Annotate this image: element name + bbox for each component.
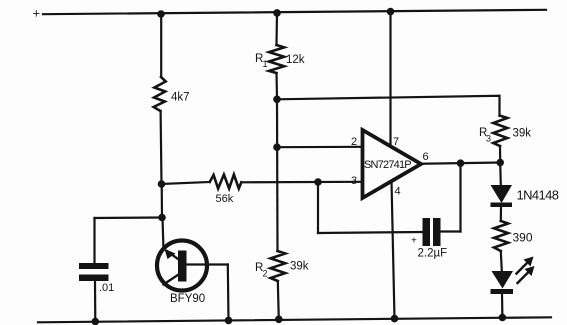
wire 56k left lead [162, 182, 210, 184]
wire 56k to pin3 [241, 181, 361, 184]
node junction output wire / feedback [457, 159, 465, 167]
node junction bottom rail / transistor [225, 317, 233, 325]
wire pin6 output horizontal [421, 163, 500, 164]
node junction 4k7 / 56k [158, 180, 166, 188]
resistor 56k [210, 175, 242, 189]
svg-text:4k7: 4k7 [171, 92, 190, 104]
node junction top rail / pin7 column [387, 8, 395, 16]
svg-text:6: 6 [423, 151, 429, 163]
wire R3 horizontal feed [277, 96, 500, 116]
wire column between taps [276, 99, 279, 251]
svg-text:7: 7 [393, 136, 399, 148]
node junction bottom rail / pin4 [391, 315, 399, 323]
svg-text:+: + [411, 236, 417, 247]
svg-text:2: 2 [351, 136, 357, 148]
svg-text:1: 1 [263, 59, 268, 69]
node junction pin2 tap [273, 143, 281, 151]
wire 4k7 bottom to base node [160, 111, 163, 184]
wire output riser vertical [459, 163, 461, 232]
node junction top rail / R1 column [273, 9, 281, 17]
node junction bottom rail / R2 [275, 316, 283, 324]
svg-text:39k: 39k [290, 261, 309, 273]
wire R1 bottom to R3 tap [275, 73, 278, 99]
svg-text:39k: 39k [513, 128, 532, 140]
svg-text:3: 3 [351, 175, 357, 187]
wire capacitor branch horizontal [95, 216, 163, 219]
wire bottom negative rail [38, 317, 551, 322]
resistor 4k7 [154, 77, 166, 111]
wire diode to 390 [500, 207, 502, 221]
wire capacitor to output riser [441, 230, 461, 232]
wire 390 to LED [501, 251, 502, 271]
resistor R2 39k [271, 251, 286, 281]
wire capacitor top lead [93, 218, 95, 263]
wire R3 bottom to output node [499, 146, 501, 163]
svg-text:2: 2 [263, 269, 268, 279]
wire feedback vertical down [317, 182, 319, 233]
transistor Q1 BFY90 [157, 241, 207, 306]
wire 4k7 top lead [160, 14, 162, 77]
svg-text:12k: 12k [286, 54, 305, 66]
svg-text:BFY90: BFY90 [170, 293, 205, 305]
node junction bottom rail / LED column [499, 314, 507, 322]
node junction bottom rail / capacitor [92, 318, 100, 325]
node junction top rail / 4k7 column [157, 10, 165, 18]
svg-text:390: 390 [513, 231, 533, 245]
wire R1 top lead [275, 13, 278, 45]
wire R2 bottom lead [278, 281, 279, 320]
node junction output / diode column [496, 159, 504, 167]
LED D2 [491, 257, 535, 295]
wire pin7 vertical [389, 12, 391, 147]
svg-text:1N4148: 1N4148 [517, 188, 559, 203]
wire LED to bottom rail [501, 294, 504, 318]
svg-text:SN72741P: SN72741P [364, 159, 411, 171]
wire feedback horizontal to capacitor [318, 232, 423, 233]
node junction feedback tap on pin3 wire [314, 178, 322, 186]
svg-text:56k: 56k [216, 193, 234, 205]
wire pin2 horizontal [277, 146, 361, 149]
node junction R1 / R3 wire [273, 96, 281, 104]
svg-text:3: 3 [486, 134, 491, 144]
op-amp U1 SN72741P [351, 130, 429, 198]
wire pin4 vertical to bottom rail [392, 181, 395, 319]
wire emitter lead down to transistor [163, 218, 164, 251]
wire base drop to bottom rail [227, 265, 230, 321]
capacitor C2 2.2uF [423, 218, 431, 246]
svg-text:+: + [33, 6, 41, 21]
svg-text:4: 4 [395, 186, 401, 198]
wire transistor base lead right [187, 263, 228, 265]
svg-text:2.2µF: 2.2µF [418, 248, 448, 260]
svg-text:.01: .01 [99, 282, 114, 294]
capacitor C1 .01 [79, 263, 109, 269]
wire output node to diode [499, 163, 502, 186]
resistor R1 12k [269, 45, 284, 73]
wire top positive rail [43, 10, 546, 14]
wire junction to cap node [161, 184, 164, 218]
resistor R3 39k [493, 116, 507, 147]
resistor R4 390 [494, 221, 508, 251]
wire capacitor bottom lead [94, 281, 97, 322]
diode D1 1N4148 [491, 185, 513, 203]
node junction to .01 capacitor branch [158, 214, 166, 222]
